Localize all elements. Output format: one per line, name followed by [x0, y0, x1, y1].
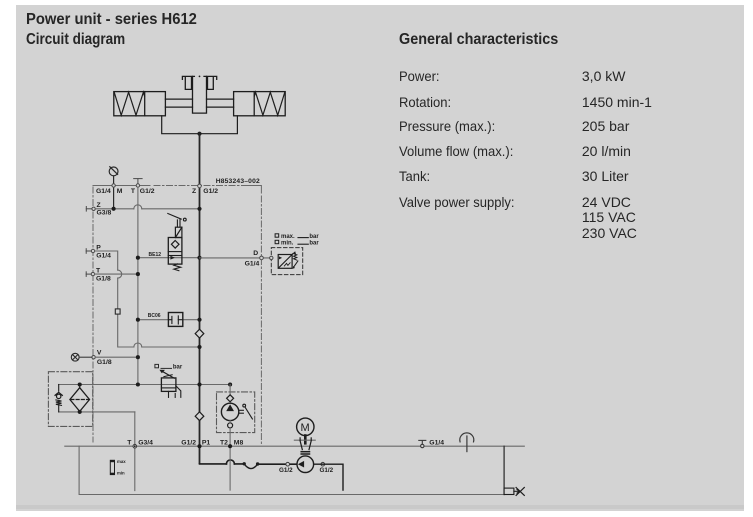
- junction T-BE12: [136, 256, 140, 260]
- port P1 G1/2: [181, 439, 210, 448]
- valve V1 right bracket: [204, 76, 217, 89]
- valve BE12 lever: [168, 214, 186, 228]
- svg-text:Z: Z: [97, 202, 101, 209]
- title line 1: [26, 11, 197, 29]
- hand pump outlet circle: [228, 423, 233, 428]
- hand pump lever: [239, 404, 253, 419]
- plug BC06: [168, 313, 182, 327]
- junction T-return: [136, 382, 140, 386]
- hand pump enclosure: [217, 392, 255, 433]
- svg-text:G1/4: G1/4: [429, 440, 444, 447]
- tank top line: [65, 445, 525, 447]
- valve V1 left rod: [165, 99, 192, 107]
- port P G1/4: [86, 249, 95, 254]
- svg-text:max.: max.: [281, 234, 295, 240]
- orifice diamond upper: [195, 329, 204, 338]
- svg-text:G3/8: G3/8: [97, 210, 112, 217]
- table labels: [399, 68, 440, 84]
- manifold boundary left edge: [92, 187, 94, 442]
- tank walls: [79, 446, 504, 494]
- svg-text:min: min: [117, 470, 125, 475]
- svg-text:G1/2: G1/2: [279, 467, 293, 474]
- svg-text:G1/2: G1/2: [181, 439, 196, 446]
- junction Z-main: [197, 207, 201, 211]
- junction main-BE12: [197, 256, 201, 260]
- wire valve left drop: [162, 116, 238, 134]
- svg-text:M8: M8: [234, 439, 244, 446]
- wire filter to tank port: [134, 412, 136, 491]
- orifice diamond lower: [195, 412, 204, 421]
- wire BC06 line: [138, 319, 200, 321]
- wire hand pump feed: [229, 385, 231, 395]
- port pump suction G1/2: [279, 462, 293, 473]
- hand pump check diamond: [227, 395, 234, 402]
- junction T-V: [136, 355, 140, 359]
- drain valve: [504, 488, 524, 496]
- svg-text:Z: Z: [192, 188, 196, 195]
- svg-text:M: M: [117, 188, 123, 195]
- valve BE12 pilot box: [175, 227, 182, 237]
- label H853243-002: [216, 178, 260, 185]
- svg-text:bar: bar: [309, 240, 319, 246]
- port T G3/4: [127, 439, 153, 448]
- svg-text:V: V: [97, 350, 102, 357]
- label BC06: [148, 313, 161, 319]
- svg-text:G1/2: G1/2: [320, 467, 334, 474]
- svg-text:G3/4: G3/4: [138, 439, 153, 446]
- hose pump suction: [243, 462, 260, 468]
- wire T2 line: [229, 421, 231, 491]
- junction P-main: [197, 345, 201, 349]
- wire filter bottom line: [59, 411, 135, 413]
- junction T-BC06: [136, 318, 140, 322]
- svg-text:T: T: [131, 188, 136, 195]
- wire D line: [200, 257, 272, 259]
- svg-text:H853243–002: H853243–002: [216, 178, 260, 185]
- manifold boundary top edge: [93, 186, 261, 194]
- orifice plug on P line: [115, 309, 120, 314]
- filter enclosure: [48, 372, 92, 427]
- junction return corner: [228, 382, 232, 386]
- label max min bar: [275, 234, 308, 244]
- port V G1/8: [92, 350, 112, 366]
- valve V1 left bracket: [182, 76, 194, 89]
- junction main-return: [197, 382, 201, 386]
- valve BE12 flow arrow: [170, 256, 174, 260]
- measuring point V: [71, 353, 79, 361]
- svg-text:G1/2: G1/2: [140, 188, 155, 195]
- valve V1 right rod: [207, 99, 234, 107]
- svg-text:G1/2: G1/2: [203, 188, 218, 195]
- table values: [582, 68, 626, 84]
- svg-text:G1/8: G1/8: [96, 276, 111, 283]
- pressure gauge: [109, 167, 118, 208]
- motor M1: [297, 418, 314, 435]
- valve V1 right spring: [254, 92, 284, 115]
- wire P1 suction run: [200, 460, 298, 464]
- wire BE12 line: [138, 257, 200, 259]
- coupling bell housing: [294, 436, 315, 455]
- wire P line: [95, 251, 199, 347]
- wire T vertical line: [137, 187, 139, 384]
- svg-text:T: T: [96, 268, 101, 275]
- relief valve arrow: [159, 370, 174, 379]
- port pump outlet G1/2: [320, 462, 334, 473]
- breather: [460, 433, 474, 452]
- svg-text:P1: P1: [202, 439, 211, 446]
- svg-text:P: P: [96, 244, 101, 251]
- svg-text:min.: min.: [281, 240, 294, 246]
- relief valve body: [161, 378, 176, 392]
- level gauge: [110, 460, 114, 474]
- valve BE12 spring: [174, 264, 181, 271]
- valve V1 right body: [234, 92, 286, 116]
- junction valve outlet: [197, 132, 201, 136]
- port Z G1/2 top: [192, 184, 218, 195]
- svg-text:D: D: [253, 250, 258, 257]
- port T2 M8: [220, 439, 243, 448]
- port G1/4 spare: [419, 440, 426, 447]
- svg-text:G1/8: G1/8: [97, 359, 112, 366]
- port D G1/4: [245, 250, 264, 268]
- valve V1 left body: [114, 92, 166, 116]
- relief valve drain: [169, 386, 181, 398]
- svg-text:bar: bar: [309, 234, 319, 240]
- svg-text:M: M: [301, 422, 310, 434]
- section heading: [399, 31, 558, 49]
- junction main-BC06: [197, 318, 201, 322]
- check valve bypass: [55, 385, 62, 412]
- manifold boundary right edge: [260, 196, 262, 446]
- label BE12: [149, 252, 162, 258]
- pressure switch S1 spring: [293, 254, 298, 269]
- pressure switch S1 enclosure: [271, 248, 302, 275]
- pressure switch S1: [270, 251, 297, 268]
- svg-text:G1/4: G1/4: [245, 261, 260, 268]
- svg-text:BE12: BE12: [149, 252, 162, 258]
- title line 2: [26, 31, 125, 49]
- svg-text:G1/4: G1/4: [96, 253, 111, 260]
- filter F1: [70, 385, 90, 412]
- wire Z line: [95, 205, 198, 209]
- wire T G1/8 line: [95, 273, 138, 275]
- port M G1/4: [96, 184, 123, 195]
- label bar relief: [155, 364, 172, 368]
- port Z G3/8: [86, 207, 95, 212]
- port T G1/2 top: [134, 179, 142, 188]
- valve V1 center column: [193, 76, 207, 114]
- junction T-G1/8: [136, 272, 140, 276]
- valve V1 left spring: [114, 92, 144, 115]
- svg-text:max: max: [117, 459, 126, 464]
- junction gauge: [112, 207, 116, 211]
- junction filter top: [78, 382, 82, 386]
- wire main pressure line: [199, 134, 201, 463]
- svg-text:T: T: [127, 439, 132, 446]
- wire V line: [79, 356, 138, 358]
- svg-text:BC06: BC06: [148, 313, 161, 319]
- hand pump circle: [221, 403, 238, 420]
- wire pressure return line: [59, 384, 230, 386]
- wire pump outlet: [314, 464, 343, 490]
- svg-text:G1/4: G1/4: [96, 188, 111, 195]
- valve BE12 body: [168, 238, 182, 265]
- junction filter bottom: [78, 410, 82, 414]
- pump P1: [297, 456, 314, 473]
- svg-text:T2: T2: [220, 439, 228, 446]
- port T G1/8: [86, 272, 94, 277]
- svg-text:bar: bar: [173, 364, 183, 370]
